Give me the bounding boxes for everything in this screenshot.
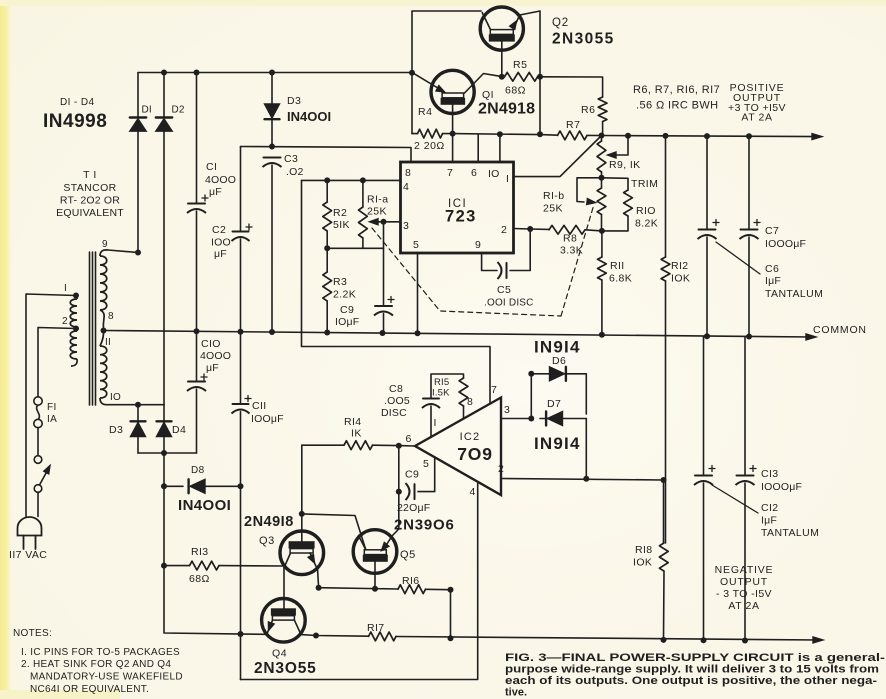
node D6 corner junction [528, 371, 534, 377]
pin label 11 [105, 337, 111, 348]
resistor R14 1K [302, 441, 414, 450]
op-amp regulator IC1 723 box [401, 162, 514, 253]
node D2 top rail junction [161, 70, 167, 76]
svg-text:I: I [434, 417, 437, 429]
label 1N914 for D7 [534, 434, 581, 453]
node Q2 emitter column on rail [537, 131, 543, 137]
transformer T1 secondary upper winding pin9 to pin8 [100, 250, 108, 331]
label R10 8.2K [635, 205, 658, 230]
wire IC1 pin7 stub [452, 134, 454, 162]
node C12 bottom on negative rail [701, 637, 707, 643]
svg-text:D4: D4 [172, 424, 186, 436]
svg-text:RI7: RI7 [367, 622, 385, 634]
svg-text:723: 723 [445, 208, 477, 226]
transistor Q1 2N4918 [414, 70, 502, 133]
label 2N3906 for Q5 [394, 517, 455, 534]
resistor R13 68 ohm [164, 561, 284, 570]
pin label 8 [108, 311, 114, 322]
svg-text:I. IC PINS FOR TO-5 PACKAGES: I. IC PINS FOR TO-5 PACKAGES [21, 647, 180, 658]
node Q3 base junction [299, 511, 305, 517]
label R1-a 25K [367, 194, 388, 218]
svg-text:Q5: Q5 [400, 549, 416, 561]
pin label 1 [64, 283, 67, 294]
node D3 top rail junction [269, 70, 275, 76]
resistor R7 [558, 131, 602, 140]
AC plug 117 VAC [18, 517, 42, 549]
pin label 10 [110, 392, 121, 403]
wire IC1 pin10 stub [499, 134, 501, 161]
svg-text:TANTALUM: TANTALUM [761, 527, 819, 539]
svg-text:NC64I OR EQUIVALENT.: NC64I OR EQUIVALENT. [30, 684, 149, 695]
node C9 / Q5 collector junction [396, 489, 402, 495]
svg-text:STANCOR: STANCOR [63, 182, 116, 194]
svg-text:7: 7 [491, 384, 497, 396]
label 117 VAC [9, 549, 47, 561]
label 1N914 for D6 [534, 338, 581, 357]
svg-text:R5: R5 [513, 59, 527, 71]
node R9 junction [599, 133, 605, 139]
node D8 right [238, 483, 244, 489]
label Q2 [552, 17, 569, 29]
node pin9 junction [135, 250, 141, 256]
label IC2 [460, 431, 481, 443]
pin 1 label IC2 [434, 417, 437, 429]
svg-text:D7: D7 [547, 398, 561, 410]
wire bottom loop to IC2 pin4 [241, 484, 478, 680]
wire L1 Q3 collector line with R16 [318, 570, 451, 594]
svg-text:purpose wide-range supply. It: purpose wide-range supply. It will deliv… [505, 664, 879, 676]
wire C2/D3 node to IC1 pin 8 [241, 147, 412, 162]
potentiometer R9 1K [597, 136, 606, 178]
label NEGATIVE OUTPUT -3 TO -15V AT 2A [715, 564, 774, 612]
pin 1 label IC1 [506, 173, 509, 185]
svg-text:2N4918: 2N4918 [478, 101, 535, 118]
wire pin1 to line input [26, 294, 76, 517]
svg-text:CIO: CIO [201, 338, 221, 350]
svg-text:RT- 2O2 OR: RT- 2O2 OR [60, 195, 120, 207]
label IN4001 for D8 [178, 497, 231, 514]
svg-text:8: 8 [108, 311, 114, 322]
node C1 top rail junction [194, 70, 200, 76]
resistor R15 1.5K with C8 feedback loop [422, 374, 468, 436]
node R12 top [663, 133, 669, 139]
label T1 STANCOR RT-202 OR EQUIVALENT [56, 169, 124, 219]
svg-text:4: 4 [403, 181, 409, 193]
node pin2 wire at R18 column [661, 477, 667, 483]
svg-text:8.2K: 8.2K [635, 218, 658, 230]
wire negative column down from bridge [164, 453, 267, 634]
pin 7 label IC1 [447, 167, 453, 179]
label COMMON [813, 324, 867, 336]
node pin2/D7 column junction [583, 476, 589, 482]
node R2 top [324, 177, 330, 183]
label D3 top [287, 95, 301, 107]
wire R2 bottom to R1-a bottom [327, 247, 363, 249]
pin 5 label IC2 [423, 458, 429, 470]
resistor R11 6.8K [598, 231, 607, 335]
svg-text:R9, IK: R9, IK [609, 159, 641, 171]
pin 8 label IC1 [405, 167, 411, 179]
svg-text:2.2K: 2.2K [333, 289, 356, 301]
svg-text:C3: C3 [284, 153, 298, 165]
label D4 [172, 424, 186, 436]
wire pin2 to fuse [38, 328, 76, 397]
svg-text:2 20Ω: 2 20Ω [414, 140, 445, 152]
node primary pin2 [73, 326, 79, 332]
svg-text:CI2: CI2 [761, 502, 779, 514]
svg-text:2: 2 [501, 224, 507, 236]
label D1 [142, 105, 152, 116]
svg-text:IO: IO [488, 168, 500, 180]
node Q4 collector on negative rail [313, 633, 319, 639]
svg-text:R7: R7 [566, 119, 580, 131]
label C9 220pF [397, 469, 430, 515]
label C8 .005 DISC [381, 383, 410, 419]
label R5 [513, 59, 527, 71]
svg-text:II7 VAC: II7 VAC [9, 549, 47, 561]
svg-text:Q2: Q2 [552, 17, 569, 29]
svg-text:C8: C8 [389, 383, 403, 395]
label C1 4000uF [205, 161, 236, 198]
svg-text:6.8K: 6.8K [609, 273, 632, 285]
label R7 [566, 119, 580, 131]
wire R16 node down to negative rail [450, 590, 452, 639]
svg-text:RII: RII [610, 260, 625, 272]
svg-text:IN4OOI: IN4OOI [287, 109, 331, 124]
svg-text:R8: R8 [563, 233, 577, 245]
svg-text:RIO: RIO [636, 205, 656, 217]
label 723 [445, 208, 477, 226]
label D8 [191, 465, 205, 476]
label R14 1K [344, 416, 362, 440]
node R9 bottom / R1-b top [599, 175, 605, 181]
node Q1 base on rail [450, 131, 456, 137]
node C6 bottom on COMMON [704, 333, 710, 339]
svg-text:IA: IA [47, 414, 57, 425]
label 68 ohm for R5 [505, 85, 526, 97]
label C2 100uF [211, 224, 231, 260]
label C13 1000uF [761, 468, 802, 493]
capacitor C7 1000uF [740, 136, 761, 336]
transistor Q4 2N3055 [262, 599, 306, 643]
svg-text:DI: DI [142, 105, 152, 116]
wire Q2 emitter node down to output rail [539, 77, 541, 134]
wire transformer pin10 to bridge lower diodes [107, 404, 164, 406]
node C7 bottom on COMMON [746, 334, 752, 340]
svg-text:IμF: IμF [761, 515, 777, 527]
node junction rail/Q1 collector [409, 70, 415, 76]
svg-text:R3: R3 [333, 276, 347, 288]
label R11 6.8K [609, 260, 632, 285]
svg-text:RI6: RI6 [402, 575, 420, 587]
diode D1 1N4998 [130, 73, 146, 253]
node C2/C11 column on COMMON [238, 329, 244, 335]
node transformer centertap on COMMON [101, 328, 107, 334]
notes text block [13, 628, 183, 695]
svg-text:3: 3 [504, 404, 510, 416]
capacitor C3 .02 [263, 158, 282, 333]
wire fuse to switch [37, 428, 39, 456]
node R1-a bottom tie [381, 219, 387, 225]
svg-text:D8: D8 [191, 465, 205, 476]
wire D6/D7 right column to pin2 wire [585, 419, 587, 479]
pin 10 label IC1 [488, 168, 500, 180]
wire IC1 pin5 stub to COMMON [417, 253, 419, 333]
wire top rail from bridge to Q1/Q2 node [138, 72, 412, 74]
svg-text:FI: FI [47, 402, 57, 413]
svg-text:AT 2A: AT 2A [741, 112, 772, 124]
svg-text:QI: QI [482, 89, 494, 101]
svg-text:C7: C7 [765, 225, 779, 237]
wire IC2 pin3 to diode pair [501, 418, 531, 420]
diode D3 bridge lower [131, 405, 146, 453]
transistor Q3 2N4918 [280, 514, 324, 575]
label POSITIVE OUTPUT +3 TO +15V AT 2A [728, 82, 786, 124]
wire negative output rail with R17 [301, 632, 820, 641]
resistor R6 [598, 97, 607, 136]
wire reference rail to IC1 pin 4 [302, 179, 401, 181]
pin 2 label IC2 [498, 463, 504, 475]
svg-text:.OOI DISC: .OOI DISC [484, 298, 534, 309]
capacitor C5 .001 disc with pin9 loop [482, 229, 531, 279]
svg-text:R6: R6 [581, 104, 595, 116]
svg-text:7O9: 7O9 [457, 444, 492, 464]
capacitor C13 1000uF [736, 337, 757, 641]
svg-text:Q3: Q3 [259, 535, 275, 547]
R1-b wiper bracket and arrow [577, 178, 602, 205]
pin 4 label IC2 [470, 486, 476, 498]
label R9 1K [609, 159, 641, 171]
svg-text:NOTES:: NOTES: [13, 628, 52, 639]
capacitor C10 4000uF [187, 331, 207, 453]
label R8 3.3K [560, 233, 583, 257]
label C7 1000uF [765, 225, 806, 250]
svg-text:4OOO: 4OOO [200, 350, 231, 362]
wire bridge bottom bus [138, 452, 197, 454]
pin label 9 [102, 239, 108, 250]
wire Q5 collector up to C9 node [392, 492, 399, 536]
svg-text:μF: μF [214, 248, 227, 260]
label R15 1.5K [432, 377, 450, 399]
svg-text:each of its outputs. One outpu: each of its outputs. One output is posit… [505, 675, 877, 687]
wire COMMON rail [104, 331, 815, 338]
node C6 top [704, 133, 710, 139]
svg-text:TANTALUM: TANTALUM [765, 288, 823, 300]
svg-text:2. HEAT SINK FOR Q2 AND Q4: 2. HEAT SINK FOR Q2 AND Q4 [21, 659, 171, 670]
node Q4 emitter on C11 column [238, 631, 244, 637]
gang dashed line R1-a to R1-b [372, 206, 594, 316]
label 2N4918 for Q1 [478, 101, 535, 118]
wire IC1 pin6 stub [477, 134, 479, 161]
pin 8 label IC2 [467, 396, 473, 408]
resistor R18 10K [659, 480, 668, 640]
svg-text:2N49I8: 2N49I8 [244, 514, 294, 530]
node transformer pin10 to D3 column [135, 402, 141, 408]
node D3 cathode junction [269, 144, 275, 150]
resistor R8 3.3K [530, 225, 602, 234]
wire Q3 emitter to Q4 base [283, 568, 285, 609]
label R13 [191, 546, 209, 558]
label Q4 [272, 648, 287, 660]
svg-text:RI8: RI8 [635, 544, 653, 556]
node R18 bottom on negative rail [661, 637, 667, 643]
svg-text:D2: D2 [172, 105, 185, 116]
svg-text:Q4: Q4 [272, 648, 287, 660]
svg-text:.O2: .O2 [286, 166, 304, 178]
svg-text:tive.: tive. [505, 687, 527, 699]
capacitor C12 1uF tantalum [694, 336, 715, 640]
svg-text:RI4: RI4 [344, 416, 362, 428]
svg-text:IOOOμF: IOOOμF [765, 238, 806, 250]
diode D8 1N4001 [164, 479, 241, 493]
C12 pointer line [712, 485, 758, 513]
R9 wiper arrow [608, 136, 629, 158]
label 2N3055 for Q4 [254, 660, 317, 677]
node R2/R3 junction [324, 245, 330, 251]
pin label 2 [62, 316, 68, 327]
capacitor C1 4000uF [187, 73, 208, 332]
svg-text:3: 3 [403, 220, 409, 232]
label C9 10uF [335, 304, 359, 328]
svg-text:C5: C5 [497, 284, 511, 296]
label IN4001 top [287, 109, 331, 124]
potentiometer R1-a 25K [359, 180, 384, 248]
potentiometer R1-b 25K [597, 178, 606, 231]
svg-text:I: I [64, 283, 67, 294]
node C7 top [746, 133, 752, 139]
node C9 column on COMMON [380, 330, 386, 336]
svg-text:R2: R2 [333, 207, 347, 219]
pin 9 label IC1 [475, 239, 481, 251]
node pin2/C5 junction [527, 226, 533, 232]
svg-text:2N3055: 2N3055 [552, 31, 615, 48]
svg-text:OUTPUT: OUTPUT [720, 576, 768, 588]
node R5 left / Q2 base [499, 74, 505, 80]
wire D6 branch upper [531, 367, 586, 419]
resistor R12 10K [661, 136, 670, 543]
pin 2 label IC1 [501, 224, 507, 236]
pin 6 label IC1 [471, 167, 477, 179]
label C3 .02 [284, 153, 304, 178]
label R6 R7 R16 R17 group note [633, 84, 720, 112]
svg-text:9: 9 [475, 239, 481, 251]
wire positive output rail [602, 136, 821, 137]
svg-text:FIG. 3—FINAL POWER-SUPPLY CIRC: FIG. 3—FINAL POWER-SUPPLY CIRCUIT is a g… [505, 652, 885, 664]
svg-text:IOμF: IOμF [335, 316, 359, 328]
transformer T1 secondary lower winding pin11 to pin10 [100, 331, 107, 405]
label TRIM [631, 178, 658, 190]
fuse F1 1A [34, 397, 42, 428]
resistor R5 [502, 72, 540, 81]
svg-text:IK: IK [351, 428, 362, 440]
svg-text:II: II [105, 337, 111, 348]
node R8/R10/R11 junction [599, 228, 605, 234]
node R13 left [161, 563, 167, 569]
transformer T1 primary upper winding [70, 295, 77, 327]
node R17 right on negative rail [448, 635, 454, 641]
svg-text:6: 6 [406, 433, 412, 445]
R1-a wiper arrow and pin3 wire [370, 219, 401, 225]
svg-text:IOOμF: IOOμF [251, 413, 284, 425]
svg-text:8: 8 [405, 167, 411, 179]
svg-text:CII: CII [252, 400, 267, 412]
svg-text:IOK: IOK [633, 557, 652, 569]
svg-text:MANDATORY-USE WAKEFIELD: MANDATORY-USE WAKEFIELD [30, 672, 183, 683]
node bridge bottom junction [161, 450, 167, 456]
node R11 bottom on COMMON [599, 332, 605, 338]
label D6 [552, 355, 566, 367]
pin 6 label IC2 [406, 433, 412, 445]
wire rail riser to Q2 collector [412, 11, 481, 73]
transformer T1 primary lower winding [70, 329, 77, 367]
resistor R2 51K [323, 180, 332, 248]
wire IC2 pin2 to R18 column [501, 479, 664, 481]
svg-text:4: 4 [470, 486, 476, 498]
pin 5 label IC1 [413, 239, 419, 251]
svg-text:2: 2 [498, 463, 504, 475]
label D7 [547, 398, 561, 410]
label R17 [367, 622, 385, 634]
svg-text:R6, R7, RI6, RI7: R6, R7, RI6, RI7 [633, 84, 720, 96]
label C10 4000uF [200, 338, 231, 374]
diode D7 1N914 [540, 412, 586, 426]
svg-text:I: I [506, 173, 509, 185]
node primary pin1 [73, 293, 79, 299]
label R12 10K [671, 260, 690, 285]
svg-text:RI-b: RI-b [543, 190, 564, 202]
svg-text:C9: C9 [340, 304, 354, 316]
svg-text:D3: D3 [109, 424, 123, 436]
svg-text:4OOO: 4OOO [205, 174, 236, 186]
svg-text:.56 Ω IRC BWH: .56 Ω IRC BWH [636, 100, 719, 112]
svg-text:IOK: IOK [671, 273, 690, 285]
svg-text:TRIM: TRIM [631, 178, 658, 190]
label Q5 [400, 549, 416, 561]
svg-text:7: 7 [447, 167, 453, 179]
svg-text:6: 6 [471, 167, 477, 179]
switch S1 [34, 456, 50, 493]
resistor R3 2.2K [323, 248, 332, 332]
transformer T1 core [90, 252, 96, 405]
node IC1 pin5 on COMMON [415, 330, 421, 336]
svg-text:CI: CI [206, 161, 217, 173]
negative output arrowhead [813, 637, 823, 643]
svg-text:R4: R4 [418, 106, 432, 118]
label Q1 [482, 89, 494, 101]
svg-text:5IK: 5IK [333, 219, 350, 231]
pin 3 label IC1 [403, 220, 409, 232]
svg-text:CI3: CI3 [761, 468, 779, 480]
svg-text:IC2: IC2 [460, 431, 481, 443]
label 709 [457, 444, 492, 464]
svg-text:5: 5 [413, 239, 419, 251]
node R3 column on COMMON [324, 330, 330, 336]
node C13 bottom on negative rail [742, 638, 748, 644]
label R1-b 25K [543, 190, 564, 215]
resistor R4 [412, 73, 453, 138]
label D1-D4 IN4998 [43, 97, 107, 132]
svg-text:IμF: IμF [765, 275, 781, 287]
wire transformer pin9 to D1 column [108, 250, 138, 253]
svg-text:IOOOμF: IOOOμF [761, 481, 802, 493]
capacitor C9 220pF [399, 446, 435, 500]
svg-text:68Ω: 68Ω [505, 85, 526, 97]
diode D3 1N4001 top [265, 73, 280, 147]
label D2 [172, 105, 185, 116]
svg-text:2N39O6: 2N39O6 [394, 517, 455, 534]
svg-text:22OμF: 22OμF [397, 502, 430, 514]
svg-text:.OO5: .OO5 [384, 395, 410, 407]
